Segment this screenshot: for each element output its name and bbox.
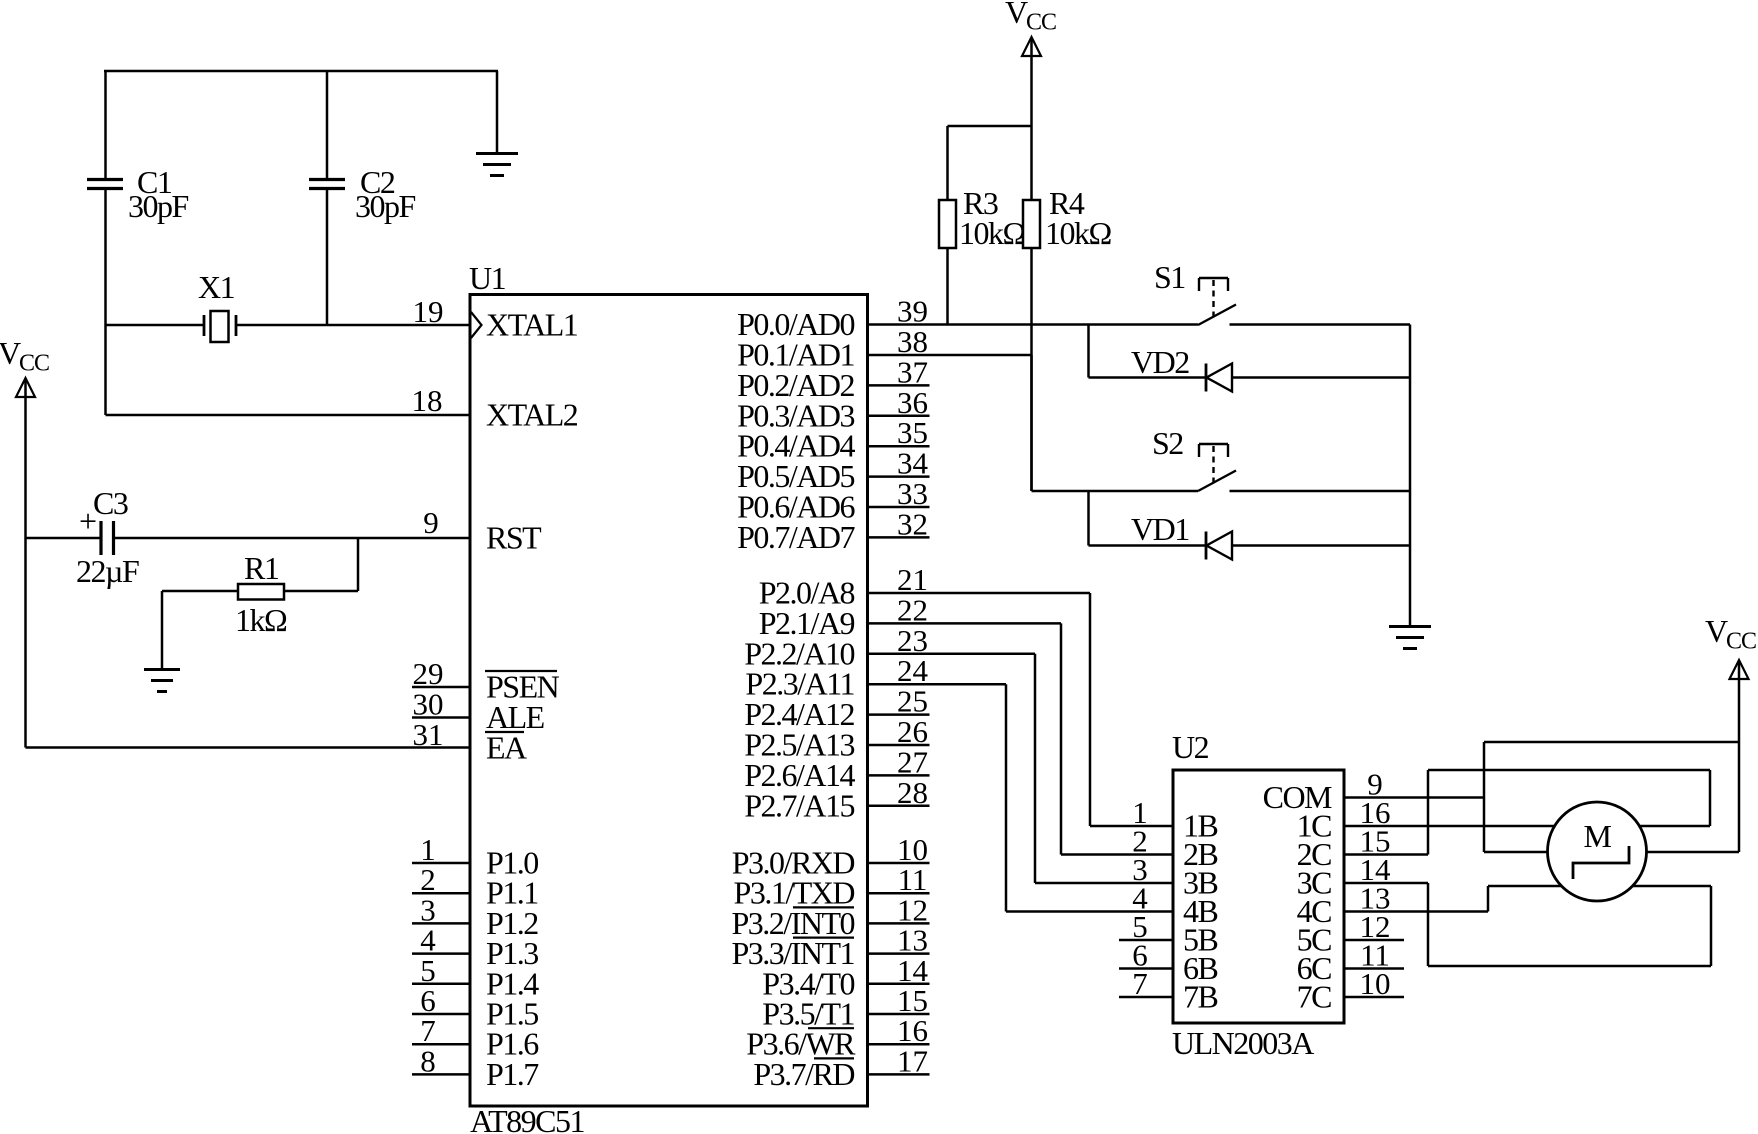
wire motor right terminal bbox=[1647, 851, 1740, 854]
wire COM to VCC column bbox=[1344, 742, 1739, 852]
pin number 10 bbox=[897, 832, 928, 867]
pin label 1B bbox=[1183, 808, 1218, 844]
pin number 15 bbox=[1360, 824, 1391, 859]
pin label 2C bbox=[1297, 836, 1332, 872]
pin 29 wire (PSEN) bbox=[412, 686, 470, 689]
pin number 12 bbox=[897, 892, 928, 927]
svg-text:P2.7/A15: P2.7/A15 bbox=[744, 787, 854, 823]
pin number 2 bbox=[1132, 824, 1148, 859]
pin number 32 bbox=[897, 506, 928, 541]
svg-text:7C: 7C bbox=[1297, 979, 1332, 1015]
pin number 18 bbox=[412, 383, 443, 418]
pin label P3.1/TXD bbox=[734, 875, 855, 911]
pin 6 stub wire bbox=[1119, 967, 1173, 970]
pin label P1.0 bbox=[486, 845, 538, 881]
pin 16 stub wire bbox=[868, 1043, 930, 1046]
svg-text:C3: C3 bbox=[93, 485, 128, 521]
pin label XTAL1 bbox=[486, 307, 578, 343]
pin label P0.0/AD0 bbox=[737, 306, 854, 342]
pin label P3.6/WR bbox=[746, 1026, 856, 1062]
wire P0.0 net (pin 39) to S1 bbox=[868, 323, 1199, 326]
label VD1 bbox=[1131, 511, 1189, 547]
pin number 33 bbox=[897, 476, 928, 511]
svg-text:V: V bbox=[0, 335, 21, 371]
pin number 6 wire bbox=[412, 1013, 470, 1016]
pin number 23 bbox=[897, 623, 928, 658]
svg-text:P1.7: P1.7 bbox=[486, 1056, 539, 1092]
pin label 4B bbox=[1183, 893, 1218, 929]
IC U2 ULN2003A body bbox=[1173, 770, 1344, 1023]
pin number 8 wire bbox=[412, 1073, 470, 1076]
resistor R4 bbox=[1023, 200, 1040, 491]
label AT89C51 bbox=[470, 1103, 584, 1134]
pin number 1 bbox=[1132, 795, 1148, 830]
pin label EA (overline) bbox=[485, 730, 527, 766]
pin number 36 bbox=[897, 385, 928, 420]
pin label P1.4 bbox=[486, 965, 539, 1001]
label C3 bbox=[93, 485, 128, 521]
pin number 19 bbox=[413, 294, 444, 329]
wire VCC vertical (left) bbox=[24, 380, 27, 748]
pin 26 stub wire bbox=[868, 744, 930, 747]
pin 15 stub wire bbox=[868, 1013, 930, 1016]
pin number 3 wire bbox=[412, 922, 470, 925]
pin label 1C bbox=[1297, 808, 1332, 844]
label 10k ohm (R4) bbox=[1045, 215, 1112, 251]
pin 37 stub wire bbox=[868, 384, 930, 387]
svg-text:XTAL2: XTAL2 bbox=[486, 397, 578, 433]
pin 10 stub wire bbox=[868, 862, 930, 865]
pin 13 stub wire bbox=[868, 952, 930, 955]
pin number 2 wire bbox=[412, 892, 470, 895]
svg-text:22µF: 22µF bbox=[76, 553, 139, 589]
pin 34 stub wire bbox=[868, 475, 930, 478]
wire VCC vertical (right) bbox=[1738, 662, 1741, 852]
capacitor C3 (electrolytic) bbox=[101, 521, 114, 555]
pin label RST bbox=[486, 520, 542, 556]
pin 14 stub wire bbox=[868, 983, 930, 986]
ground (switch section) bbox=[1389, 627, 1431, 649]
pin 11 stub wire bbox=[868, 892, 930, 895]
pin number 6 bbox=[1132, 938, 1148, 973]
pin label P0.1/AD1 bbox=[737, 337, 854, 373]
svg-text:U2: U2 bbox=[1172, 729, 1209, 765]
svg-text:30pF: 30pF bbox=[128, 188, 189, 224]
pin 28 stub wire bbox=[868, 805, 930, 808]
pin label 5B bbox=[1183, 922, 1218, 958]
label 1k ohm bbox=[235, 602, 287, 638]
wire VD2 cathode to right column bbox=[1232, 376, 1410, 379]
svg-text:P3.7/RD: P3.7/RD bbox=[753, 1056, 854, 1092]
label 30pF (C2) bbox=[355, 188, 416, 224]
pin label COM bbox=[1263, 779, 1332, 815]
svg-text:19: 19 bbox=[413, 294, 444, 329]
svg-text:P0.7/AD7: P0.7/AD7 bbox=[737, 519, 855, 555]
pin label 7C bbox=[1297, 979, 1332, 1015]
svg-text:S2: S2 bbox=[1152, 425, 1183, 461]
svg-text:10kΩ: 10kΩ bbox=[959, 215, 1026, 251]
pin label 3B bbox=[1183, 865, 1218, 901]
pin 36 stub wire bbox=[868, 415, 930, 418]
wire P2.2 to 3B bbox=[868, 654, 1174, 883]
pin number 34 bbox=[897, 446, 929, 481]
label + (C3 polarity) bbox=[79, 503, 96, 539]
pin number 27 bbox=[897, 744, 928, 779]
VCC arrow (top) bbox=[1022, 37, 1041, 56]
pin label PSEN (overline) bbox=[485, 669, 560, 705]
pin label P0.5/AD5 bbox=[737, 458, 854, 494]
pin label 7B bbox=[1183, 979, 1218, 1015]
label R3 bbox=[963, 185, 998, 221]
pin 17 stub wire bbox=[868, 1073, 930, 1076]
pin number 1 wire bbox=[412, 862, 470, 865]
pin label P2.1/A9 bbox=[759, 605, 855, 641]
label R4 bbox=[1049, 185, 1085, 221]
pin number 9 bbox=[1367, 767, 1383, 802]
label U1 bbox=[469, 260, 506, 296]
pin label P3.4/T0 bbox=[762, 965, 854, 1001]
svg-text:9: 9 bbox=[423, 505, 439, 540]
svg-text:VD1: VD1 bbox=[1131, 511, 1189, 547]
pin label 3C bbox=[1297, 865, 1332, 901]
svg-text:10kΩ: 10kΩ bbox=[1045, 215, 1112, 251]
label C2 bbox=[360, 164, 395, 200]
pin number 1 bbox=[420, 832, 436, 867]
label C1 bbox=[137, 164, 172, 200]
pin label 2B bbox=[1183, 836, 1218, 872]
capacitor C2 bbox=[309, 71, 345, 326]
pin number 3 bbox=[420, 892, 436, 927]
pin label XTAL2 bbox=[486, 397, 578, 433]
pin number 10 bbox=[1360, 966, 1391, 1001]
wire motor left terminal bbox=[1484, 851, 1548, 854]
pin number 12 bbox=[1360, 909, 1391, 944]
pin number 31 bbox=[413, 717, 444, 752]
wire bridge R3 top bbox=[948, 125, 1032, 128]
pin label P2.6/A14 bbox=[744, 757, 855, 793]
pin label ALE bbox=[486, 699, 544, 735]
wire P2.0 to 1B bbox=[868, 593, 1174, 826]
wire RST to R1 bbox=[284, 538, 358, 591]
pin number 38 bbox=[897, 324, 928, 359]
pin label P2.4/A12 bbox=[744, 696, 854, 732]
svg-text:M: M bbox=[1584, 818, 1612, 854]
pin label P1.2 bbox=[486, 905, 538, 941]
pin 35 stub wire bbox=[868, 445, 930, 448]
pin label 6B bbox=[1183, 950, 1218, 986]
pin number 5 bbox=[1132, 909, 1148, 944]
pin number 24 bbox=[897, 653, 929, 688]
pin label P1.3 bbox=[486, 935, 538, 971]
label R1 bbox=[244, 550, 279, 586]
wire R1 to ground bbox=[162, 591, 238, 669]
power VCC (left) bbox=[0, 335, 49, 377]
pin label P0.3/AD3 bbox=[737, 397, 854, 433]
pin label P3.2/INT0 bbox=[732, 905, 855, 941]
power VCC (top) bbox=[1005, 0, 1056, 36]
diode VD1 bbox=[1206, 532, 1232, 560]
pin label P0.2/AD2 bbox=[737, 367, 854, 403]
svg-text:28: 28 bbox=[897, 775, 928, 810]
pin number 4 wire bbox=[412, 952, 470, 955]
svg-text:X1: X1 bbox=[198, 269, 235, 305]
ground (reset) bbox=[144, 670, 180, 692]
pin label P2.3/A11 bbox=[745, 666, 854, 702]
VCC arrow (left) bbox=[16, 378, 35, 397]
pin label P2.2/A10 bbox=[744, 635, 854, 671]
pin number 39 bbox=[897, 294, 928, 329]
wire S2 to right column bbox=[1230, 490, 1411, 493]
svg-text:CC: CC bbox=[1726, 629, 1756, 655]
svg-text:XTAL1: XTAL1 bbox=[486, 307, 578, 343]
wire S1 to right column bbox=[1230, 323, 1411, 326]
pin 32 stub wire bbox=[868, 536, 930, 539]
XTAL1 clock input chevron bbox=[471, 312, 482, 338]
pin label P3.3/INT1 bbox=[732, 935, 855, 971]
pin number 9 bbox=[423, 505, 439, 540]
power VCC (right) bbox=[1705, 613, 1756, 655]
IC U1 AT89C51 body bbox=[470, 295, 868, 1107]
pin label P0.6/AD6 bbox=[737, 489, 855, 525]
diode VD2 bbox=[1206, 364, 1232, 392]
pin number 35 bbox=[897, 415, 928, 450]
label S1 bbox=[1154, 259, 1185, 295]
pin label P2.5/A13 bbox=[744, 727, 854, 763]
wire 2C to motor upper-right bbox=[1344, 770, 1710, 855]
pin number 13 bbox=[1360, 881, 1391, 916]
wire ground branch from top rail bbox=[496, 71, 499, 153]
pin number 8 bbox=[420, 1043, 436, 1078]
svg-text:1kΩ: 1kΩ bbox=[235, 602, 287, 638]
svg-text:S1: S1 bbox=[1154, 259, 1185, 295]
svg-text:ULN2003A: ULN2003A bbox=[1172, 1025, 1314, 1061]
pin label P1.6 bbox=[486, 1026, 539, 1062]
wire VD2 anode branch bbox=[1089, 325, 1206, 378]
pin label 5C bbox=[1297, 922, 1332, 958]
svg-text:AT89C51: AT89C51 bbox=[470, 1103, 584, 1134]
pin 27 stub wire bbox=[868, 774, 930, 777]
pin number 7 wire bbox=[412, 1043, 470, 1046]
svg-text:7: 7 bbox=[1132, 966, 1148, 1001]
switch S2 pushbutton bbox=[1198, 444, 1236, 491]
wire 1C to motor upper terminal bbox=[1344, 825, 1554, 828]
wire 3C to motor lower-right bbox=[1344, 883, 1711, 966]
label 10k ohm (R3) bbox=[959, 215, 1026, 251]
pin number 14 bbox=[1360, 852, 1392, 887]
wire VD1 cathode to right column bbox=[1232, 544, 1410, 547]
pin 25 stub wire bbox=[868, 713, 930, 716]
pin 7 stub wire bbox=[1119, 996, 1173, 999]
svg-text:31: 31 bbox=[413, 717, 444, 752]
pin number 4 bbox=[420, 923, 436, 958]
wire 4C to motor lower-left bbox=[1344, 886, 1561, 912]
pin number 26 bbox=[897, 714, 928, 749]
label 22uF bbox=[76, 553, 139, 589]
pin number 13 bbox=[897, 923, 928, 958]
wire VD1 anode branch bbox=[1089, 491, 1206, 546]
svg-text:U1: U1 bbox=[469, 260, 506, 296]
svg-text:VD2: VD2 bbox=[1131, 344, 1189, 380]
wire P0.1 net to R4/S2 column bbox=[868, 354, 1032, 357]
svg-text:V: V bbox=[1705, 613, 1728, 649]
pin number 7 bbox=[1132, 966, 1148, 1001]
wire XTAL2 from C1 branch bbox=[106, 326, 471, 415]
pin label P2.7/A15 bbox=[744, 787, 854, 823]
pin 5 stub wire bbox=[1119, 939, 1173, 942]
crystal X1 bbox=[106, 311, 471, 342]
wire RST net bbox=[26, 537, 471, 540]
pin label P3.7/RD bbox=[753, 1056, 854, 1092]
pin number 30 bbox=[413, 687, 444, 722]
pin number 5 bbox=[420, 953, 436, 988]
pin label P1.1 bbox=[486, 875, 538, 911]
svg-text:V: V bbox=[1005, 0, 1028, 30]
wire P0.1 column to S2 bbox=[1032, 355, 1199, 491]
svg-text:RST: RST bbox=[486, 520, 542, 556]
pin number 7 bbox=[420, 1013, 436, 1048]
pin number 11 bbox=[898, 862, 928, 897]
wire P2.3 to 4B bbox=[868, 684, 1174, 911]
pin label 4C bbox=[1297, 893, 1332, 929]
label ULN2003A bbox=[1172, 1025, 1314, 1061]
pin 11 stub wire bbox=[1344, 967, 1404, 970]
resistor R3 bbox=[939, 126, 956, 325]
pin number 37 bbox=[897, 354, 928, 389]
pin number 11 bbox=[1360, 938, 1390, 973]
wire right column to ground bbox=[1409, 325, 1412, 627]
svg-text:17: 17 bbox=[897, 1043, 928, 1078]
capacitor C1 bbox=[87, 71, 123, 326]
pin number 6 bbox=[420, 983, 436, 1018]
label S2 bbox=[1152, 425, 1183, 461]
wire top rail of oscillator loop bbox=[104, 70, 498, 73]
label X1 bbox=[198, 269, 235, 305]
svg-text:7B: 7B bbox=[1183, 979, 1218, 1015]
svg-text:8: 8 bbox=[420, 1043, 436, 1078]
pin number 14 bbox=[897, 953, 929, 988]
VCC arrow (right) bbox=[1730, 660, 1749, 679]
pin number 3 bbox=[1132, 852, 1148, 887]
wire EA net from VCC bbox=[26, 746, 471, 749]
svg-text:32: 32 bbox=[897, 506, 928, 541]
pin number 29 bbox=[413, 656, 444, 691]
pin label P1.7 bbox=[486, 1056, 539, 1092]
pin 30 wire (ALE) bbox=[412, 716, 470, 719]
pin number 28 bbox=[897, 775, 928, 810]
pin 10 stub wire bbox=[1344, 996, 1404, 999]
pin number 17 bbox=[897, 1043, 928, 1078]
pin number 25 bbox=[897, 684, 928, 719]
pin label P0.4/AD4 bbox=[737, 428, 855, 464]
pin 33 stub wire bbox=[868, 506, 930, 509]
switch S1 pushbutton bbox=[1198, 278, 1236, 325]
pin 12 stub wire bbox=[1344, 939, 1404, 942]
pin label P0.7/AD7 bbox=[737, 519, 855, 555]
svg-text:10: 10 bbox=[1360, 966, 1391, 1001]
pin number 5 wire bbox=[412, 983, 470, 986]
svg-text:CC: CC bbox=[19, 351, 49, 377]
svg-text:EA: EA bbox=[486, 730, 527, 766]
pin number 2 bbox=[420, 862, 436, 897]
pin number 22 bbox=[897, 592, 928, 627]
svg-text:R1: R1 bbox=[244, 550, 279, 586]
svg-text:CC: CC bbox=[1026, 10, 1056, 36]
label U2 bbox=[1172, 729, 1209, 765]
pin number 16 bbox=[1360, 795, 1391, 830]
pin label P3.5/T1 bbox=[762, 996, 854, 1032]
svg-text:30pF: 30pF bbox=[355, 188, 416, 224]
pin label 6C bbox=[1297, 950, 1332, 986]
pin number 21 bbox=[897, 562, 928, 597]
pin 12 stub wire bbox=[868, 922, 930, 925]
label 30pF (C1) bbox=[128, 188, 189, 224]
motor M bbox=[1548, 802, 1647, 901]
resistor R1 bbox=[238, 584, 284, 600]
pin number 4 bbox=[1132, 881, 1148, 916]
pin label P2.0/A8 bbox=[759, 575, 855, 611]
svg-text:COM: COM bbox=[1263, 779, 1332, 815]
wire P2.1 to 2B bbox=[868, 623, 1174, 854]
pin number 16 bbox=[897, 1013, 928, 1048]
wire VCC column top bbox=[1030, 39, 1033, 200]
pin label P3.0/RXD bbox=[732, 845, 855, 881]
ground (oscillator) bbox=[476, 154, 518, 176]
pin label P1.5 bbox=[486, 996, 538, 1032]
pin number 15 bbox=[897, 983, 928, 1018]
svg-text:18: 18 bbox=[412, 383, 443, 418]
label VD2 bbox=[1131, 344, 1189, 380]
